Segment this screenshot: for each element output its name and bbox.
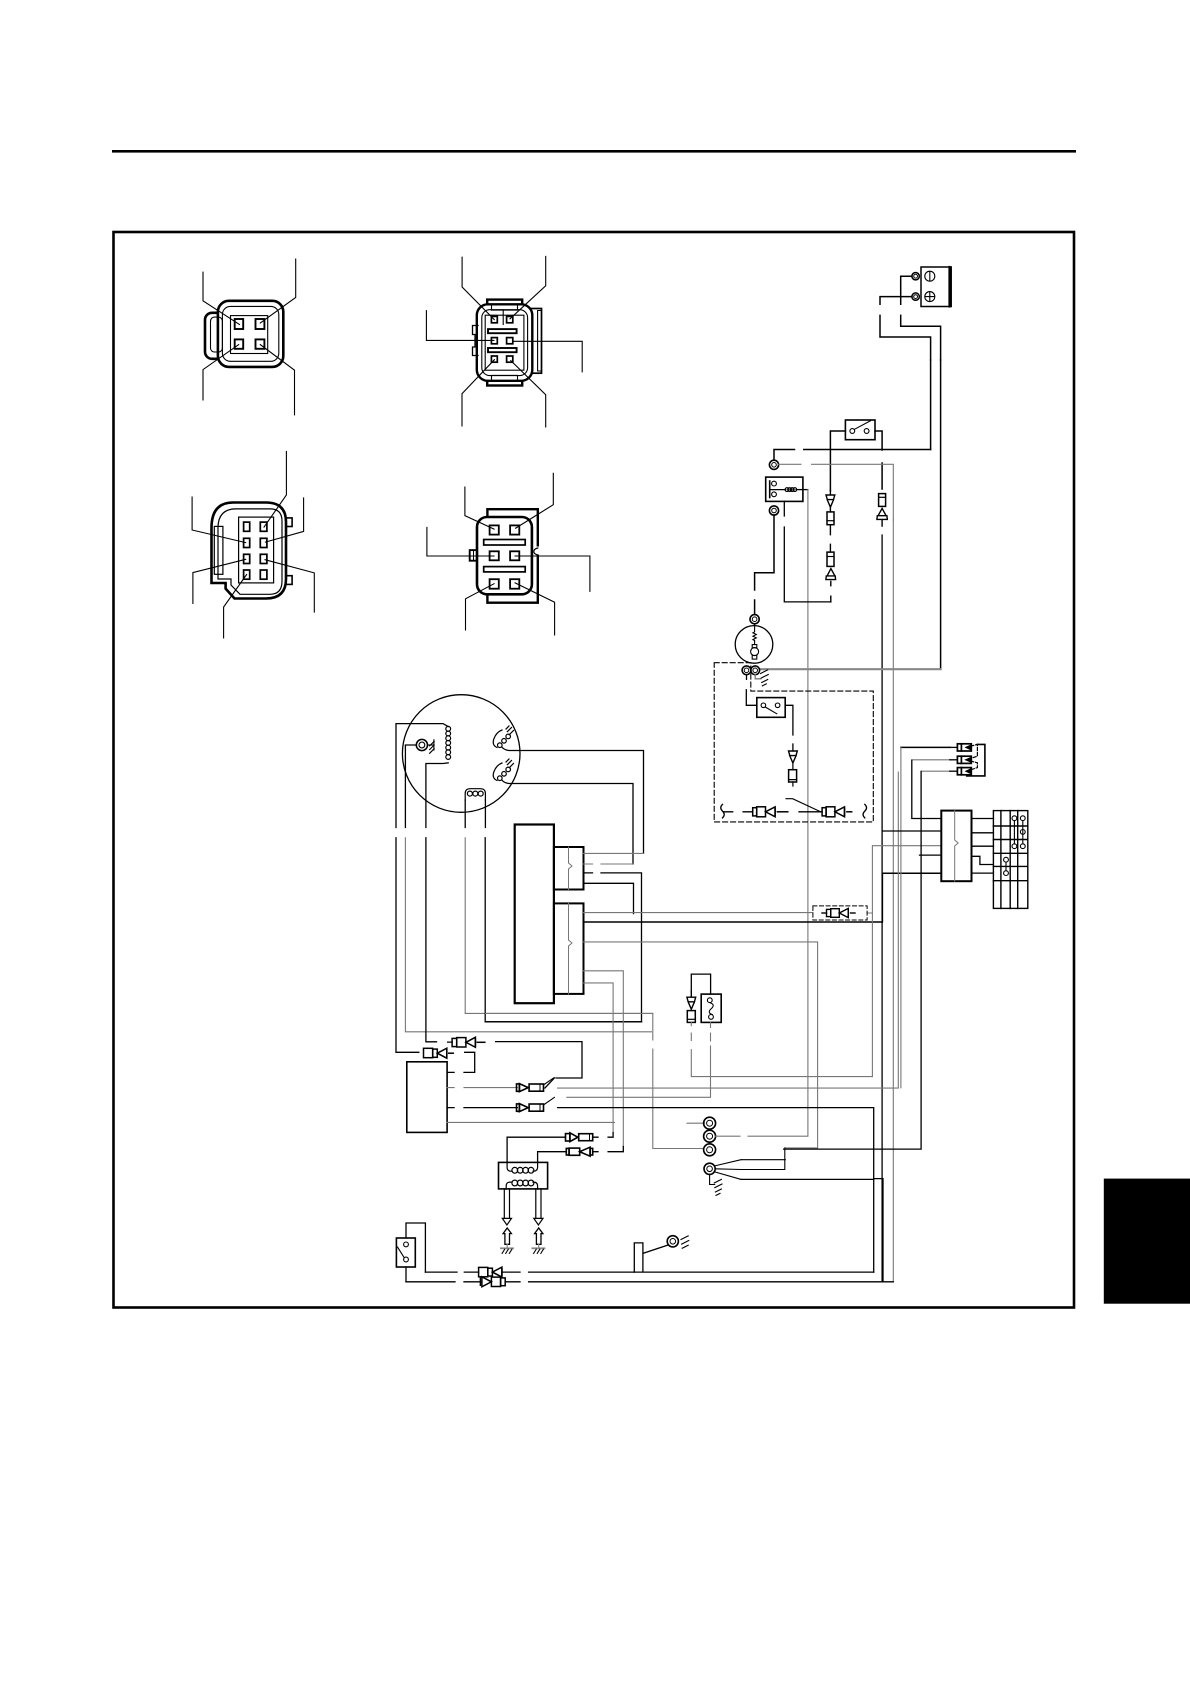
relay contact upper (772, 481, 777, 486)
wire battery negative (901, 276, 941, 360)
joint ring 3 (704, 1144, 716, 1156)
connector C4 backplate (487, 509, 537, 603)
wire starter bus horizontal (760, 668, 941, 670)
spark plug lead 1 (504, 1189, 509, 1219)
C2 pin 6 (507, 356, 513, 362)
C3 leader pinR1 (264, 451, 286, 527)
wire relay coil output down (807, 490, 809, 1136)
joint ring 1 (704, 1117, 716, 1129)
C1 pin 4 (256, 339, 265, 348)
C2 slot bar 2 (488, 348, 517, 352)
starter motor internals (751, 624, 759, 659)
C2 leader pin6 (511, 361, 546, 427)
relay coil (770, 489, 786, 491)
charge coil 1 (493, 726, 513, 748)
wire charge coil 2 output (502, 780, 633, 864)
P4 separation diagonal (544, 1097, 555, 1104)
wire rectifier out3 (972, 845, 994, 847)
wire battery positive down to main switch feed (930, 360, 932, 450)
wire crimp2 down to rectifier pin1 (912, 760, 942, 818)
wire relay contact branch to fuse bottom (784, 501, 831, 602)
engine control unit box (407, 1062, 447, 1133)
wire crimp1 down (900, 748, 902, 1088)
wire coil1 pin1 (charge in) (584, 852, 644, 854)
harness brace right (863, 804, 867, 818)
wire coil2 pin4 (584, 971, 624, 1147)
C4 leader pin1 (465, 487, 494, 529)
fuse F3 (879, 494, 886, 507)
fuse F4 kill line (789, 770, 797, 782)
C2 pin 2 (507, 316, 513, 322)
wire coil2 pin1 to rectifier (584, 846, 942, 913)
wire rectifier out1 (972, 818, 994, 820)
C1 leader pin3 (203, 345, 239, 400)
unit pin3 row continues (558, 1108, 874, 1179)
engine stop switch box (396, 1238, 415, 1267)
wire rectifier pin2 feed (882, 830, 941, 832)
inline pair in dashed box (822, 908, 855, 917)
fuse F1 (827, 512, 834, 525)
C1 leader pin1 (203, 272, 240, 324)
neutral switch box (701, 994, 721, 1022)
C2 slot bar 1 (488, 329, 517, 333)
main border box (114, 232, 1075, 1308)
C3 leader pinR2 (265, 498, 303, 542)
C2 pin 4 (507, 338, 513, 344)
fuse F2 (827, 552, 834, 566)
inline connector male (up) below fuse F3 (877, 508, 887, 526)
charge coil 2 (493, 759, 513, 781)
spark plug lead 2 (536, 1189, 541, 1219)
wire trim sender lead (634, 1243, 667, 1272)
wire prong1 (741, 1148, 785, 1170)
ignition coil 2 secondary line (569, 903, 573, 994)
C4 leader pin5 (466, 584, 495, 630)
inline connector male (down) on switch-left line (826, 491, 835, 508)
wire P3 line to rear (558, 772, 899, 1088)
C4 pin 4 (510, 551, 519, 560)
wire coil1 pin3 (pulser) (584, 873, 642, 1022)
wire neutral switch down (710, 1022, 712, 1096)
C1 leader pin2 (260, 259, 295, 323)
wire stop switch bottom (405, 1267, 407, 1282)
black side tab (1104, 1179, 1190, 1304)
C4 leader pin3 (427, 527, 494, 556)
battery negative terminal symbol (925, 271, 935, 281)
C3 leader pinR3 (265, 560, 314, 612)
rectifier regulator box (941, 811, 971, 882)
harness crimp terminal 3 (921, 770, 950, 772)
joint ring 4 (multi) (704, 1163, 715, 1174)
wire neutral connector down (691, 1022, 872, 1076)
dashed remote control box (714, 663, 873, 822)
wire pulser lower loop (485, 1021, 641, 1023)
C2 leader pin2 (510, 256, 546, 318)
connector C1 4-pin housing (205, 301, 283, 367)
HT winding 2 (506, 1180, 537, 1189)
terminal block jumper B (1020, 816, 1025, 849)
C2 pin 5 (491, 356, 497, 362)
magneto ground (428, 740, 435, 754)
main switch contacts (850, 429, 855, 434)
wire coil2 pin5 (584, 983, 614, 1133)
wire HT2 to coil feed (593, 1147, 624, 1152)
bullet connector pair P1 (452, 1037, 485, 1047)
unit pin2 wire (447, 1087, 517, 1089)
wire charge line down right side (892, 520, 894, 1282)
CDI unit box (515, 825, 554, 1004)
wire prong3 jog (741, 1179, 883, 1282)
C3 right tab upper (286, 518, 292, 527)
wire branch to rectifier pin4 (920, 854, 942, 856)
starter relay input ring (769, 460, 778, 469)
C1 pin 2 (256, 319, 265, 329)
spark plug HT arrow 2 (534, 1218, 543, 1225)
wire battery positive (880, 297, 931, 360)
wire P1 to junction (496, 1042, 582, 1088)
wire relay ring to coil contact line (779, 464, 894, 520)
bullet connector pair P2 (424, 1048, 454, 1058)
wire charge coil 1 output (502, 747, 644, 853)
bullet pair lanyard left (753, 807, 788, 817)
C2 leader pin5 (462, 360, 494, 426)
top rule line (112, 150, 1076, 153)
C2 leader pin3 (426, 311, 494, 341)
harness bracket (967, 744, 985, 776)
bullet connector pair P3 (517, 1084, 544, 1092)
starter ground (761, 670, 769, 686)
C1 leader pin4 (260, 345, 294, 415)
wire magneto ground (405, 745, 416, 828)
wire pulser coil right (484, 800, 486, 828)
stop switch contacts (404, 1242, 409, 1247)
wire relay to starter motor (755, 515, 774, 613)
relay armature bar (769, 481, 771, 498)
bullet pair HT1 (566, 1133, 593, 1142)
battery positive terminal ring (912, 293, 919, 300)
connector C2 6-pin housing (477, 300, 542, 386)
C3 pins row 2 (244, 538, 250, 547)
wire lanyard row mid (799, 811, 822, 813)
kill switch arm (765, 707, 777, 714)
wire prong2 (741, 1169, 784, 1171)
trim sender ground (681, 1236, 689, 1248)
wire switch feed (774, 450, 931, 461)
bullet female neutral line (687, 1011, 695, 1023)
kill switch box (757, 698, 785, 718)
wire junction to neutral chain (691, 974, 710, 994)
harness brace left (721, 804, 725, 818)
C4 slot bar 1 (484, 540, 526, 546)
C4 leader pin4 (515, 556, 590, 591)
wire pulser coil left (464, 800, 466, 828)
wire battery negative down to starter bus (940, 360, 942, 669)
spark plug 1 ground (506, 1244, 508, 1248)
rectifier internal line (955, 811, 959, 882)
wire starter ground (755, 675, 761, 679)
C4 pin 5 (490, 579, 499, 589)
wire right fuse column down (881, 535, 883, 1282)
starter ground ring A (742, 666, 751, 675)
wire ring4 ground lead (710, 1174, 715, 1184)
wire coil1 pin4 (584, 883, 634, 913)
inline connector male (down) neutral line (687, 991, 696, 1009)
lighting coil (446, 726, 451, 759)
terminal block jumper A (1012, 816, 1017, 849)
harness crimp terminal 2 (912, 759, 950, 761)
magneto ground ring (416, 739, 427, 750)
C3 leader pinL2 (192, 497, 246, 542)
bullet pair bus2 (480, 1277, 505, 1287)
wire rectifier out2 (972, 832, 994, 834)
wire bus1 right end up (873, 1179, 875, 1273)
CDI magneto flywheel circle (402, 695, 520, 813)
relay contact lower (772, 492, 777, 497)
unit pin3 wire (447, 1107, 517, 1109)
inline connector male (up) below fuse F2 (826, 569, 836, 602)
wire coil2 pin2 to rectifier (584, 873, 942, 922)
terminal block jumper C (1004, 857, 1009, 875)
main switch box (845, 420, 875, 440)
wire coil2 pin3 (584, 942, 818, 1148)
battery negative terminal ring (912, 273, 919, 280)
neutral switch S symbol (707, 998, 713, 1020)
bullet pair HT2 (566, 1147, 592, 1156)
wire lighting coil top (396, 724, 448, 828)
C4 pin 2 (510, 525, 519, 534)
ignition coil 1 secondary line (569, 847, 573, 890)
wire rectifier out4 jog (972, 856, 994, 864)
stop switch arm (398, 1247, 405, 1258)
wire P2 to stop-box pin1 (448, 1052, 475, 1072)
wire kill line diagonal to lanyard pair (786, 799, 821, 812)
main switch arm (855, 421, 871, 430)
C3 pins row 3 (244, 554, 250, 563)
terminal block grid (993, 811, 1027, 909)
wires through grommet break (396, 838, 419, 1053)
wire HT1 to coil feed (593, 1133, 613, 1138)
wire rectifier out5 (972, 872, 994, 874)
wire kill switch output (785, 705, 793, 751)
wire lighting coil bottom (426, 763, 448, 828)
trim sender ring (667, 1236, 678, 1247)
C3 pins row 1 (244, 522, 250, 531)
wire HT coil input 1 (507, 1137, 565, 1162)
C4 pin 3 (490, 551, 499, 560)
C2 pin 1 (491, 316, 497, 322)
wire switch right to fuse column (875, 431, 882, 489)
bullet connector pair P4 (517, 1104, 544, 1112)
wire ring2 to relay line (716, 1135, 808, 1137)
kill switch contacts (761, 703, 766, 708)
joint ring 2 (704, 1130, 716, 1142)
C4 leader pin2 (516, 473, 554, 528)
ring4 prongs (715, 1160, 741, 1180)
HT winding 1 (507, 1162, 537, 1173)
wire stop switch top (406, 1223, 425, 1272)
starter relay output ring (769, 506, 778, 515)
starter relay box (766, 477, 803, 501)
bullet pair bus1 (479, 1267, 502, 1277)
ignition coil 2 box (554, 903, 584, 994)
spark plug 2 ground (538, 1244, 540, 1248)
C2 leader pin1 (462, 257, 494, 319)
wire P4 line to neutral switch (567, 1096, 711, 1098)
battery positive terminal symbol (925, 292, 935, 302)
C3 right tab lower (286, 576, 292, 585)
C4 slot bar 2 (484, 567, 526, 572)
dashed connector box (813, 906, 867, 920)
bus wire 2 (406, 1281, 893, 1283)
C3 leader pinL3 (193, 559, 246, 603)
C2 leader pin4 (513, 341, 582, 372)
pulser coil (465, 789, 485, 800)
C4 pin 6 (510, 579, 519, 589)
connector C4 body (477, 517, 532, 594)
ignition HT coil block (499, 1162, 548, 1189)
C1 pin 1 (235, 319, 244, 329)
ignition coil 1 box (554, 847, 584, 890)
P3 separation diagonal (544, 1078, 554, 1085)
spark plug 2 (535, 1228, 543, 1244)
wire CDI ground lead (486, 1013, 704, 1148)
wire lanyard row left (723, 811, 752, 813)
bullet pair lanyard right (822, 807, 852, 817)
starter motor circle (735, 626, 773, 664)
C3 leader pinL4 (224, 575, 247, 638)
harness crimp terminal 1 (901, 746, 950, 748)
C4 left tab (470, 550, 477, 561)
inline connector male (down) kill line (789, 751, 798, 763)
spark plug 1 (503, 1228, 511, 1244)
joint ring 4 ground (714, 1179, 722, 1195)
spark plug HT arrow 1 (502, 1218, 511, 1225)
wire switch left to fuse column (830, 431, 845, 491)
C2 left latch (473, 326, 479, 356)
C3 pins row 4 (244, 570, 250, 579)
bus wire 1 (425, 1271, 873, 1273)
C2 pin 3 (491, 338, 497, 344)
wire coil1 pin2 (charge in 2) (584, 863, 634, 865)
C4 leader pin6 (515, 583, 555, 635)
harness crimp zigzag (966, 744, 977, 771)
starter ground ring B (751, 666, 760, 675)
wire ring A down to kill switch (746, 675, 757, 706)
unit pin4 wire (447, 1121, 704, 1124)
battery box (921, 267, 951, 307)
wire HT coil input 2 (538, 1152, 567, 1163)
C4 pin 1 (490, 525, 499, 534)
wire to rectifier pin3 vertical (871, 913, 873, 1077)
starter motor terminal ring (750, 615, 759, 624)
wire crimp3 down to ring junction (784, 771, 922, 1149)
C1 pin 3 (235, 339, 244, 348)
